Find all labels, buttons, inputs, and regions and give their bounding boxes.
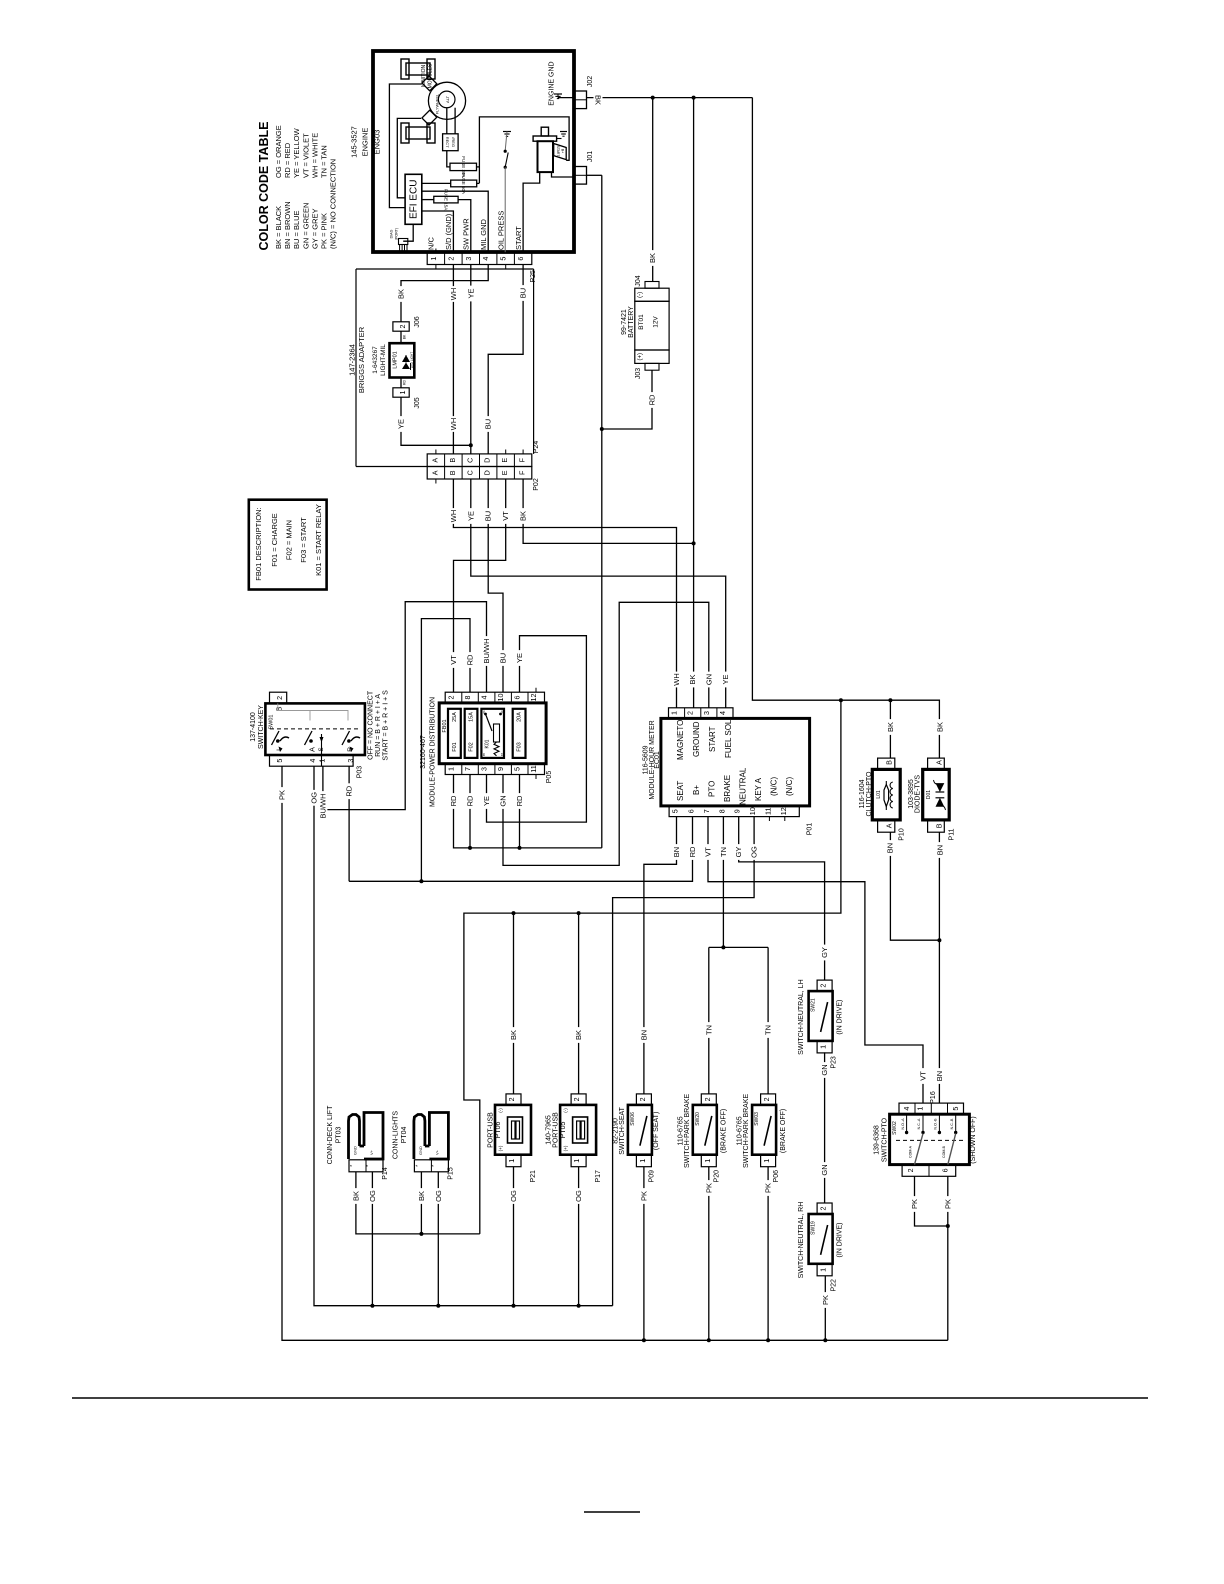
svg-text:FUEL SOL: FUEL SOL — [724, 719, 733, 758]
svg-text:GN = GREEN: GN = GREEN — [301, 203, 310, 249]
svg-text:1: 1 — [572, 1159, 581, 1163]
svg-text:10: 10 — [496, 694, 505, 702]
wire ECU to pin 4 MIL GND — [422, 191, 488, 253]
svg-text:PK = PINK: PK = PINK — [320, 213, 329, 249]
svg-text:OG: OG — [750, 846, 759, 858]
svg-text:SWITCH-PARK BRAKE: SWITCH-PARK BRAKE — [684, 1093, 691, 1167]
connector J01 — [575, 151, 594, 184]
battery BT01 — [621, 275, 669, 379]
svg-text:SEAT: SEAT — [676, 781, 685, 801]
svg-text:5: 5 — [951, 1107, 960, 1111]
wire YE light-MIL to P24 C — [397, 378, 473, 448]
fuse 50A — [451, 173, 477, 194]
svg-text:START: START — [708, 726, 717, 752]
svg-text:4: 4 — [308, 759, 317, 763]
svg-text:RUN = B + R + I + A: RUN = B + R + I + A — [375, 694, 382, 757]
wire fuse 15A to pin 3 SW PWR — [458, 200, 471, 253]
svg-text:(SHOWN OFF): (SHOWN OFF) — [970, 1116, 977, 1163]
svg-text:6: 6 — [516, 257, 525, 261]
wire BK light-MIL to P25 pin 4 — [397, 265, 489, 344]
svg-text:(N/C) = NO CONNECTION: (N/C) = NO CONNECTION — [329, 159, 338, 249]
light-MIL LMP01 — [372, 343, 414, 377]
svg-text:SWITCH-NEUTRAL, RH: SWITCH-NEUTRAL, RH — [798, 1202, 805, 1279]
pto switch SW02 — [874, 1091, 978, 1176]
svg-text:P17: P17 — [595, 1170, 602, 1183]
svg-text:15A: 15A — [469, 712, 475, 722]
svg-text:OFF = NO CONNECT: OFF = NO CONNECT — [367, 690, 374, 760]
svg-text:SW01: SW01 — [269, 715, 275, 730]
svg-text:SW19: SW19 — [811, 1221, 817, 1235]
svg-text:B+: B+ — [561, 149, 565, 153]
svg-text:12: 12 — [779, 807, 788, 815]
wire OG usb P21 plus — [509, 1167, 518, 1306]
wire VT P02 E to module pin 2 — [449, 479, 510, 692]
wire BK ground bus to accessory grounds — [464, 700, 841, 1234]
svg-text:(PORT): (PORT) — [395, 228, 399, 240]
svg-text:YE: YE — [466, 288, 475, 298]
svg-text:PK: PK — [910, 1199, 919, 1209]
svg-text:1-643267: 1-643267 — [372, 346, 379, 374]
svg-text:1: 1 — [703, 1159, 712, 1163]
svg-text:OG: OG — [310, 792, 319, 804]
svg-text:N.C.-B: N.C.-B — [950, 1118, 954, 1129]
svg-text:D: D — [483, 458, 492, 463]
svg-text:BK: BK — [936, 722, 945, 732]
svg-text:(IN DRIVE): (IN DRIVE) — [837, 1223, 844, 1258]
svg-text:BK: BK — [574, 1030, 583, 1040]
svg-text:COM-B: COM-B — [942, 1145, 946, 1158]
wire BN clutch to diode return — [886, 832, 942, 942]
connector lights PT04 — [392, 1111, 454, 1180]
svg-text:PT03: PT03 — [336, 1127, 343, 1144]
wire OG accessory bus — [310, 766, 613, 1307]
svg-text:(N/C): (N/C) — [785, 777, 794, 796]
svg-text:RD: RD — [515, 795, 524, 806]
svg-text:ALT: ALT — [445, 95, 450, 103]
svg-text:9: 9 — [496, 767, 505, 771]
svg-text:6: 6 — [513, 696, 522, 700]
svg-text:WH: WH — [672, 673, 681, 686]
svg-text:BK: BK — [648, 253, 657, 263]
svg-text:BK: BK — [519, 511, 528, 521]
wire BK bus to hour meter ground — [692, 98, 696, 708]
svg-text:RD: RD — [688, 846, 697, 857]
svg-text:START: START — [556, 146, 560, 157]
svg-text:GY: GY — [820, 947, 829, 958]
wire BK deck lift and lights grounds — [351, 1172, 479, 1236]
svg-text:2: 2 — [447, 696, 456, 700]
clutch PTO L01 — [859, 758, 905, 841]
svg-text:(OFF SEAT): (OFF SEAT) — [653, 1112, 660, 1150]
svg-text:MODULES: MODULES — [428, 63, 434, 88]
svg-text:F: F — [518, 470, 527, 475]
svg-text:(+): (+) — [638, 353, 644, 361]
svg-text:4: 4 — [480, 696, 489, 700]
svg-text:START: START — [514, 226, 523, 250]
svg-text:137-4100: 137-4100 — [250, 712, 257, 742]
svg-text:P11: P11 — [948, 828, 955, 840]
svg-text:SW03: SW03 — [754, 1112, 760, 1126]
svg-text:*: * — [350, 1165, 356, 1167]
svg-text:RD: RD — [345, 785, 354, 796]
svg-text:PK: PK — [639, 1191, 648, 1201]
wire fuse 30A to starter B+ — [477, 117, 570, 183]
svg-text:11: 11 — [763, 807, 772, 814]
svg-text:2: 2 — [906, 1168, 915, 1172]
svg-text:BK: BK — [417, 1191, 426, 1201]
svg-text:BU: BU — [519, 288, 528, 298]
svg-text:BN: BN — [935, 1071, 944, 1081]
svg-text:1: 1 — [762, 1159, 771, 1163]
svg-text:1: 1 — [507, 1159, 516, 1163]
svg-text:BK: BK — [688, 674, 697, 684]
svg-text:1: 1 — [819, 1045, 828, 1049]
svg-text:BN = BROWN: BN = BROWN — [283, 201, 292, 249]
wire alternator to rect/reg — [447, 108, 455, 134]
svg-text:WH: WH — [449, 418, 458, 431]
diode TVS D01 — [908, 758, 955, 840]
FB01 description box — [249, 500, 327, 590]
svg-text:COM-A: COM-A — [909, 1145, 913, 1158]
wire BK usb port P17 ground — [574, 913, 583, 1094]
svg-text:GND: GND — [353, 1146, 358, 1155]
svg-text:IGNITION: IGNITION — [421, 65, 427, 88]
svg-text:12V: 12V — [653, 316, 660, 328]
svg-text:*: * — [431, 1165, 437, 1167]
wire starter to pin 6 START — [523, 172, 540, 253]
svg-text:BU/WH: BU/WH — [318, 794, 327, 819]
svg-text:J04: J04 — [635, 275, 642, 286]
wire RD bus to hour meter B+ — [349, 817, 697, 884]
svg-text:BK: BK — [351, 1191, 360, 1201]
svg-text:OG: OG — [434, 1190, 443, 1202]
ignition modules label — [421, 63, 434, 88]
svg-text:GN: GN — [704, 674, 713, 685]
svg-text:OG = ORANGE: OG = ORANGE — [274, 125, 283, 178]
module pin 11 12 stubs — [535, 688, 537, 779]
diagnostic port — [390, 224, 414, 252]
svg-text:30: 30 — [500, 710, 504, 714]
svg-text:OIL PRESS: OIL PRESS — [496, 211, 505, 250]
svg-text:P23: P23 — [831, 1056, 838, 1069]
svg-text:ENGINE GND: ENGINE GND — [549, 61, 556, 105]
wire GY hour meter neutral to neutral LH switch — [734, 817, 829, 981]
svg-text:BT01: BT01 — [638, 314, 645, 330]
wire PK key switch bus — [278, 766, 948, 1342]
svg-text:2: 2 — [398, 325, 407, 329]
svg-text:P06: P06 — [773, 1170, 780, 1183]
footer rule — [72, 1397, 1148, 1399]
svg-text:2: 2 — [703, 1097, 712, 1101]
svg-text:10: 10 — [748, 807, 757, 815]
svg-text:N.O.-B: N.O.-B — [934, 1118, 938, 1130]
wire BK hour meter ground label — [688, 672, 697, 688]
svg-text:/REG: /REG — [451, 137, 456, 147]
svg-text:J06: J06 — [414, 316, 421, 327]
svg-text:2: 2 — [507, 1097, 516, 1101]
svg-text:CONN-LIGHTS: CONN-LIGHTS — [392, 1111, 399, 1160]
svg-text:2: 2 — [572, 1097, 581, 1101]
svg-text:(N/C): (N/C) — [770, 777, 779, 796]
svg-text:V+: V+ — [369, 1149, 374, 1155]
svg-text:PORT-USB: PORT-USB — [552, 1112, 559, 1148]
svg-text:99-7421: 99-7421 — [621, 309, 628, 335]
svg-text:BU: BU — [484, 511, 493, 521]
key switch SW01 — [250, 692, 365, 778]
svg-text:(BRAKE OFF): (BRAKE OFF) — [721, 1109, 728, 1153]
wire ignition module 2 to ECU — [397, 118, 421, 197]
svg-text:8: 8 — [463, 696, 472, 700]
wire BN diode to pto switch — [935, 832, 945, 1103]
svg-text:F03 = START: F03 = START — [299, 517, 308, 563]
wire rect/reg to fuse 30A — [447, 151, 450, 167]
svg-text:L01: L01 — [876, 790, 882, 799]
svg-text:(+): (+) — [563, 1145, 568, 1151]
wire WH P25 pin2 to P24 B — [449, 265, 458, 454]
wire OG hour meter key A to accessory bus — [613, 817, 759, 1306]
svg-text:D01: D01 — [926, 790, 932, 799]
fuse F02 15A — [465, 709, 478, 758]
wire PK pto switch commons — [910, 1176, 952, 1340]
svg-text:2: 2 — [446, 257, 455, 261]
svg-text:F02: F02 — [469, 742, 475, 751]
svg-text:GROUND: GROUND — [692, 721, 701, 757]
svg-text:MAGNETO: MAGNETO — [676, 720, 685, 760]
svg-text:11: 11 — [529, 765, 538, 772]
wire BU P02 D to module pin 10 — [484, 479, 508, 692]
svg-text:BRIGGS ADAPTER: BRIGGS ADAPTER — [357, 326, 366, 393]
svg-text:PK: PK — [943, 1199, 952, 1209]
svg-text:5: 5 — [275, 759, 284, 763]
svg-text:RECT: RECT — [445, 137, 450, 148]
oil pressure switch — [503, 132, 511, 253]
svg-text:YE: YE — [397, 419, 406, 429]
svg-text:P16: P16 — [930, 1091, 937, 1104]
svg-text:*: * — [415, 1165, 421, 1167]
svg-text:COLOR CODE TABLE: COLOR CODE TABLE — [257, 122, 271, 251]
svg-text:5: 5 — [499, 257, 508, 261]
svg-text:BK = BLACK: BK = BLACK — [274, 206, 283, 249]
svg-text:RD = RED: RD = RED — [283, 142, 292, 178]
svg-text:9: 9 — [733, 809, 742, 813]
park brake switch SW03 — [737, 1093, 787, 1182]
connector P25 — [427, 249, 537, 283]
svg-text:K01: K01 — [485, 739, 491, 748]
ignition module 2 — [401, 110, 437, 143]
svg-text:LIGHT-MIL: LIGHT-MIL — [380, 344, 387, 376]
seat switch SW06 — [613, 1094, 661, 1183]
svg-text:(IN DRIVE): (IN DRIVE) — [837, 1000, 844, 1035]
svg-text:TN = TAN: TN = TAN — [320, 145, 329, 178]
svg-text:J02: J02 — [587, 76, 594, 87]
svg-text:TN: TN — [764, 1025, 773, 1035]
svg-text:BATTERY: BATTERY — [628, 306, 635, 338]
park brake switch SW20 — [677, 1093, 727, 1182]
svg-text:SWITCH-KEY: SWITCH-KEY — [258, 705, 265, 749]
svg-text:P05: P05 — [546, 771, 553, 784]
svg-text:S/D (GND): S/D (GND) — [444, 213, 453, 250]
svg-text:SWITCH-SEAT: SWITCH-SEAT — [619, 1106, 626, 1154]
svg-text:ENG03: ENG03 — [373, 130, 382, 155]
wire TN hour meter brake to park brake switches — [704, 817, 772, 1094]
svg-text:A: A — [430, 470, 439, 475]
svg-text:RD: RD — [466, 795, 475, 806]
svg-text:20A: 20A — [517, 712, 523, 722]
svg-text:ENGINE: ENGINE — [361, 128, 370, 157]
svg-text:1: 1 — [447, 767, 456, 771]
svg-text:N.C.-A: N.C.-A — [917, 1118, 921, 1129]
fuse 15A — [434, 189, 458, 210]
svg-text:SW02: SW02 — [892, 1121, 898, 1135]
svg-text:87: 87 — [500, 753, 504, 757]
svg-text:OG: OG — [368, 1190, 377, 1202]
wire ECU to pin 2 S/D GND — [422, 211, 454, 253]
svg-text:BK: BK — [594, 95, 603, 105]
svg-text:TN: TN — [719, 847, 728, 857]
svg-text:A: A — [307, 747, 316, 752]
svg-text:SWITCH-PARK BRAKE: SWITCH-PARK BRAKE — [743, 1093, 750, 1167]
svg-text:85: 85 — [482, 753, 486, 757]
svg-text:VT: VT — [919, 1071, 928, 1081]
wire RD key switch to B+ bus — [345, 766, 354, 881]
svg-text:MODULE-POWER DISTRIBUTION: MODULE-POWER DISTRIBUTION — [430, 697, 437, 807]
wire WH P02 B to hour meter magneto — [449, 479, 681, 708]
svg-text:BU: BU — [484, 419, 493, 429]
wire ignition module 1 to ECU — [389, 84, 421, 208]
wire GN module pin 9 to hour meter start — [499, 602, 714, 865]
svg-text:1: 1 — [638, 1159, 647, 1163]
flywheel with alternator — [428, 82, 465, 119]
svg-text:VT = VIOLET: VT = VIOLET — [301, 133, 310, 178]
wire starter to J01 — [552, 172, 575, 177]
svg-text:FUSE 15A: FUSE 15A — [444, 189, 449, 210]
engine pin names — [427, 211, 523, 250]
wire OG deck lift V+ — [368, 1172, 377, 1306]
svg-text:A: A — [430, 458, 439, 463]
wire fuse 50A to B+ node — [477, 182, 480, 184]
svg-text:5: 5 — [671, 809, 680, 813]
svg-text:J05: J05 — [414, 397, 421, 408]
svg-text:RD: RD — [403, 380, 407, 385]
svg-text:B: B — [885, 760, 894, 765]
svg-text:BN: BN — [936, 845, 945, 855]
wire PK seat switch — [639, 1167, 648, 1341]
svg-text:BN: BN — [672, 847, 681, 857]
svg-text:B: B — [448, 470, 457, 475]
svg-text:BU/WH: BU/WH — [482, 639, 491, 664]
wire RD battery feed to power module pins 1 7 5 — [449, 775, 602, 850]
wire OG usb P17 plus — [574, 1167, 583, 1306]
svg-text:LMP01: LMP01 — [393, 351, 399, 368]
svg-text:4: 4 — [718, 711, 727, 715]
svg-text:OG: OG — [509, 1190, 518, 1202]
wire BN hour meter seat to seat switch — [639, 817, 681, 1094]
relay K01 — [481, 709, 504, 758]
svg-text:145-3527: 145-3527 — [350, 126, 359, 158]
power distribution module FB01 — [420, 692, 553, 807]
svg-text:3: 3 — [346, 759, 355, 763]
wire ECU to fuse 50A — [422, 182, 451, 184]
svg-text:PK: PK — [704, 1183, 713, 1193]
svg-text:3: 3 — [702, 711, 711, 715]
svg-text:SW PWR: SW PWR — [462, 218, 471, 250]
svg-text:MIL GND: MIL GND — [479, 218, 488, 250]
svg-text:WH: WH — [449, 288, 458, 301]
svg-text:OG: OG — [574, 1190, 583, 1202]
usb port PT06 P21 — [487, 1094, 537, 1183]
svg-text:(-): (-) — [563, 1108, 568, 1113]
svg-text:1: 1 — [916, 1107, 925, 1111]
wire YE P02 C to hour meter fuel sol — [466, 479, 730, 708]
connector deck lift PT03 — [327, 1105, 389, 1180]
svg-text:SW06: SW06 — [630, 1112, 636, 1126]
svg-text:1: 1 — [429, 257, 438, 261]
svg-text:GY: GY — [734, 847, 743, 858]
svg-text:32160-467: 32160-467 — [420, 735, 427, 769]
svg-text:START = B + R + I + S: START = B + R + I + S — [383, 690, 390, 761]
svg-text:3: 3 — [480, 767, 489, 771]
starter motor — [533, 127, 567, 172]
svg-text:B+: B+ — [692, 785, 701, 795]
svg-text:E: E — [500, 458, 509, 463]
svg-text:PK: PK — [821, 1295, 830, 1305]
color code table — [257, 122, 338, 251]
ignition module 1 — [401, 59, 437, 91]
svg-text:P22: P22 — [831, 1279, 838, 1292]
fuse 30A — [450, 156, 477, 177]
svg-text:(+): (+) — [498, 1145, 503, 1151]
svg-text:A: A — [885, 823, 894, 828]
svg-text:PT04: PT04 — [401, 1127, 408, 1144]
svg-text:RD: RD — [648, 394, 657, 405]
svg-text:BK: BK — [403, 334, 407, 339]
svg-text:2: 2 — [819, 984, 828, 988]
svg-text:6: 6 — [687, 809, 696, 813]
svg-text:P15: P15 — [447, 1167, 454, 1180]
svg-text:PORT-USB: PORT-USB — [487, 1112, 494, 1148]
svg-text:2: 2 — [762, 1097, 771, 1101]
svg-text:12: 12 — [529, 694, 538, 702]
svg-text:F02 = MAIN: F02 = MAIN — [285, 520, 294, 560]
svg-text:GN: GN — [499, 795, 508, 806]
svg-text:A: A — [935, 760, 944, 765]
wire BK engine gnd J02 bus — [587, 92, 753, 108]
svg-text:139-6368: 139-6368 — [874, 1125, 881, 1155]
neutral switch LH SW21 — [798, 979, 844, 1068]
svg-text:(BRAKE OFF): (BRAKE OFF) — [780, 1109, 787, 1153]
connector J06 pin 2 — [393, 316, 421, 331]
svg-text:C: C — [465, 458, 474, 463]
svg-text:J01: J01 — [587, 151, 594, 162]
hour meter module EC01 — [643, 708, 814, 835]
svg-text:VT: VT — [501, 511, 510, 521]
svg-text:FLYWHEEL: FLYWHEEL — [436, 94, 440, 114]
wire BK to clutch B — [886, 700, 895, 758]
svg-text:VT: VT — [704, 847, 713, 857]
svg-text:J03: J03 — [635, 368, 642, 379]
svg-text:PK: PK — [764, 1183, 773, 1193]
svg-text:1: 1 — [819, 1268, 828, 1272]
svg-text:2: 2 — [819, 1207, 828, 1211]
wire OG lights V+ — [434, 1172, 443, 1306]
svg-text:E: E — [500, 470, 509, 475]
connector J05 pin 1 — [393, 388, 421, 409]
svg-text:FB01 DESCRIPTION:: FB01 DESCRIPTION: — [254, 507, 263, 580]
svg-text:WH: WH — [449, 510, 458, 523]
svg-text:*: * — [366, 1165, 372, 1167]
starter B+ flag — [554, 144, 567, 160]
svg-text:N.O.-A: N.O.-A — [901, 1118, 905, 1130]
